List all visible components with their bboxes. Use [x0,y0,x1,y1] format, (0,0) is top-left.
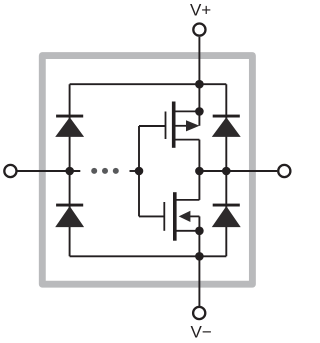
transistor Q1 (top PMOS) [166,102,200,148]
svg-text:V−: V− [191,322,212,341]
wire: NMOS gate lead [139,215,164,217]
wire: PMOS gate lead [139,125,166,127]
wire: V+ terminal stem into source/body [198,37,200,126]
wire: NMOS body/source down to V- rail [198,216,200,256]
transistor Q2 (bottom NMOS) [164,192,199,241]
junction: V+ rail node [195,80,204,89]
wire: left I/O lead [18,170,81,172]
junction: NMOS source node [195,227,204,236]
junction: left node [65,167,74,176]
terminal right I/O [278,165,290,177]
diode D4 (bottom-right, to V-) [212,204,241,228]
junction: right node [222,167,231,176]
wire: output node to right terminal [199,170,277,172]
ellipsis continuation dots [91,168,119,174]
junction: output node [195,167,204,176]
diode D1 (top-left, to V+) [55,115,84,137]
svg-text:V+: V+ [190,1,211,20]
terminal V+ [193,24,205,36]
IC package outline (gray frame) [42,56,252,285]
wire: gate bus [138,126,140,216]
wire: right diode column [225,84,227,256]
wire: top V+ rail [70,83,227,85]
wire: left diode column [69,84,71,256]
wire: V- terminal stem [198,256,200,306]
junction: gate bus node [135,167,144,176]
wire: bottom V- rail [70,255,227,257]
diode D3 (top-right, to V+) [212,115,241,137]
terminal left I/O [4,165,16,177]
diode D2 (bottom-left, to V-) [55,204,84,228]
wire: input lead into gate bus [130,170,140,172]
junction: PMOS source node [195,107,204,116]
wire: PMOS drain to NMOS drain through output node [198,140,200,200]
terminal V- [193,307,205,319]
junction: V- rail node [195,252,204,261]
